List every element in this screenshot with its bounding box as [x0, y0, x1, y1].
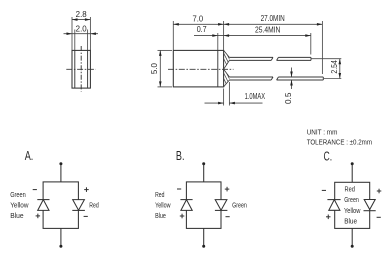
side view: extension line 2.8 left [71, 17, 73, 50]
svg-text:2.8: 2.8 [76, 10, 87, 19]
circuit A minus left [33, 189, 37, 191]
circuit C top wire [351, 165, 353, 183]
circuit B LED D2 (Green) [215, 200, 228, 211]
extension line 2.54 upper [312, 58, 342, 60]
circuit A bottom wire [60, 228, 62, 245]
extension line body left [172, 21, 174, 50]
extension line flange [217, 33, 219, 50]
circuit C LED D1 left [327, 200, 340, 211]
front view flange line [217, 50, 219, 87]
circuit A LED D1 (Green/Yellow/Blue) [37, 200, 49, 211]
svg-text:0.7: 0.7 [197, 25, 207, 34]
circuit B minus right [226, 216, 230, 218]
extension line 5.0 top [158, 49, 173, 51]
svg-text:5.0: 5.0 [150, 62, 159, 74]
circuit B plus right [225, 187, 230, 192]
extension line 2.54 lower [324, 78, 342, 80]
side view inner wall left [74, 50, 76, 88]
circuit C LED D2 right [364, 200, 376, 211]
circuit A LED D2 (Red) [72, 200, 85, 211]
svg-text:0.5: 0.5 [284, 92, 293, 104]
circuit B loop [186, 182, 221, 229]
svg-text:2.54: 2.54 [330, 60, 339, 74]
side view vertical centerline [80, 46, 82, 92]
circuit A loop [43, 182, 78, 229]
circuit B LED D1 (Red/Yellow/Blue) [180, 200, 192, 211]
svg-text:Yellow: Yellow [344, 206, 361, 215]
circuit C plus left [326, 215, 331, 220]
svg-text:UNIT : mm: UNIT : mm [307, 127, 338, 136]
side view inner wall right [87, 50, 89, 88]
side view: extension line 2.0 right [87, 30, 89, 51]
svg-text:A.: A. [25, 149, 34, 163]
svg-text:Blue: Blue [344, 217, 357, 226]
circuit A plus right [84, 187, 89, 192]
svg-text:Yellow: Yellow [155, 202, 171, 209]
circuit B top wire [203, 165, 205, 182]
circuit C minus left [322, 189, 326, 191]
circuit B bottom wire [203, 228, 205, 245]
dimension line 1.0MAX [205, 102, 263, 105]
circuit C minus right [377, 216, 381, 218]
lower lead segment 1 [229, 77, 273, 80]
upper lead segment 1 [229, 57, 273, 60]
dimension 0.5 lead thickness [290, 68, 293, 90]
svg-text:7.0: 7.0 [193, 15, 204, 24]
extension line upper lead end [310, 33, 312, 55]
circuit A minus right [84, 215, 88, 217]
svg-text:Green: Green [344, 195, 359, 204]
circuit B minus left [177, 188, 181, 190]
svg-text:25.4MIN: 25.4MIN [255, 25, 280, 34]
svg-text:B.: B. [176, 149, 185, 163]
front view body outline [173, 50, 223, 87]
dimension line 2.8 [72, 18, 90, 21]
circuit C plus right [377, 189, 382, 194]
circuit C loop [335, 182, 370, 228]
circuit B plus left [180, 214, 185, 219]
circuit A top terminal [59, 162, 62, 165]
lower lead segment 2 [277, 77, 324, 80]
front view horizontal centerline [168, 68, 234, 70]
svg-text:Green: Green [10, 192, 26, 199]
side view horizontal centerline [66, 68, 95, 70]
circuit C top terminal [351, 162, 354, 165]
svg-text:Yellow: Yellow [10, 202, 29, 209]
svg-text:2.0: 2.0 [76, 25, 88, 34]
svg-text:Blue: Blue [155, 213, 166, 220]
circuit A bottom terminal [59, 245, 62, 248]
extension line lower lead end [321, 21, 323, 74]
svg-text:TOLERANCE : ±0.2mm: TOLERANCE : ±0.2mm [307, 138, 372, 147]
svg-text:Red: Red [89, 202, 99, 209]
svg-text:27.0MIN: 27.0MIN [261, 14, 285, 23]
circuit C bottom terminal [351, 245, 354, 248]
svg-text:Red: Red [345, 185, 355, 194]
extension line body right [223, 21, 225, 50]
side view body outline [72, 50, 90, 88]
svg-text:C.: C. [324, 150, 333, 164]
extension line 1.0MAX right [228, 82, 230, 106]
extension line 1.0MAX left [223, 89, 225, 106]
circuit A plus left [36, 214, 41, 219]
svg-text:Green: Green [232, 202, 247, 209]
svg-text:1.0MAX: 1.0MAX [245, 92, 266, 101]
svg-text:Red: Red [155, 192, 164, 199]
circuit C bottom wire [351, 228, 353, 245]
circuit B top terminal [202, 162, 205, 165]
dimension line 7.0 / 27.0MIN [173, 23, 322, 26]
dimension line 2.0 [64, 32, 99, 35]
dimension line 0.7 / 25.4MIN [194, 34, 311, 37]
upper lead segment 2 [277, 57, 311, 60]
dimension line 5.0 [159, 50, 162, 87]
side view: extension line 2.8 right [89, 17, 91, 50]
circuit B bottom terminal [202, 245, 205, 248]
svg-text:Blue: Blue [10, 213, 23, 220]
side view: extension line 2.0 left [74, 30, 76, 51]
dimension line 2.54 [339, 59, 342, 79]
circuit A top wire [60, 165, 62, 182]
extension line 5.0 bottom [158, 86, 173, 88]
